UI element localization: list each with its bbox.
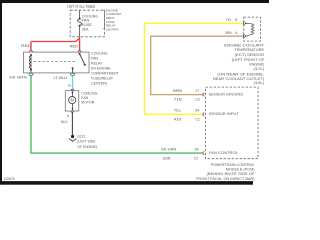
svg-text:FAN: FAN [91,56,98,60]
svg-text:(3.8L): (3.8L) [254,80,265,85]
connector arc: sensor pin B [243,22,245,25]
svg-text:(LEFT SIDE: (LEFT SIDE [77,140,96,144]
svg-text:110678: 110678 [4,177,15,181]
wire: fuse top lead [79,10,81,18]
wire RED: horizontal branch to coil [31,41,76,43]
svg-text:FRONT FACIA, ON IMPACT BAR): FRONT FACIA, ON IMPACT BAR) [196,176,255,181]
connector arc: PCM pin 27 [203,93,205,96]
svg-text:COOLING: COOLING [82,14,98,18]
svg-text:RED: RED [70,45,79,49]
connector arc: PCM pin 54 (sensor input) [203,113,205,116]
svg-text:MOTOR: MOTOR [81,101,94,105]
wire: coil to bottom edge [30,70,32,74]
svg-text:BLK: BLK [61,120,68,124]
svg-text:FAN CONTROL: FAN CONTROL [209,151,238,155]
motor M1: cooling fan motor box [65,91,79,111]
svg-text:YEL: YEL [174,109,182,113]
svg-text:COOLING: COOLING [81,92,97,96]
ECT thermistor element [245,23,247,25]
wire RED: junction diagonal [76,38,80,41]
connector oval: relay pin to DK GRN [29,73,33,75]
wire DK GRN: relay to PCM fan control [31,76,203,154]
svg-text:COOLING: COOLING [91,51,108,55]
bracket: engine compartment fuse/relay center [103,10,104,28]
svg-text:FUSE/RELAY: FUSE/RELAY [91,77,114,81]
svg-text:54: 54 [195,148,199,152]
svg-text:C2: C2 [195,98,200,102]
svg-text:(IN ENGINE: (IN ENGINE [91,67,111,71]
svg-text:COMPARTMENT: COMPARTMENT [91,72,120,76]
wire: switch output to bottom edge [72,68,74,73]
svg-text:RELAY: RELAY [91,62,103,66]
connector bump: relay switch pin 79.6 [78,51,81,53]
svg-text:LT BLU: LT BLU [54,76,68,80]
relay K1: cooling fan relay box [23,52,89,73]
svg-text:DK GRN: DK GRN [161,148,177,152]
svg-text:410: 410 [174,117,182,121]
wire YEL: sensor input to PCM [145,23,244,114]
svg-text:DK GRN: DK GRN [10,76,28,80]
wire BRN: sensor ground to PCM [151,36,244,94]
svg-text:HOT AT ALL TIMES: HOT AT ALL TIMES [67,4,95,9]
wire RED: fuse to relay switch (vertical) [79,37,81,51]
wire: fuse bottom lead [79,26,81,37]
svg-text:G112: G112 [77,135,85,139]
ground G112 [71,135,74,138]
connector oval: relay pin to LT BLU [71,73,75,75]
svg-text:FUSE: FUSE [82,23,93,27]
svg-text:CENTER): CENTER) [91,82,107,86]
wire RED: drop to relay coil [30,42,32,51]
connector arc: PCM pin 54 (fan control) [203,152,205,155]
fuse element [79,18,81,20]
PCM box (dashed) [206,87,258,159]
svg-text:YEL: YEL [226,18,232,22]
svg-text:30A: 30A [82,28,89,32]
motor symbol [69,97,76,104]
connector bump: motor pin B [71,89,74,90]
wire LT BLU: relay to fan motor [72,76,74,90]
svg-text:718: 718 [174,98,182,102]
relay switch [79,53,81,55]
svg-text:FAN: FAN [81,96,88,100]
fuse F1: cooling fan fuse box (dashed) [70,10,104,37]
relay coil [30,54,32,56]
svg-text:27: 27 [195,89,199,93]
svg-text:FAN: FAN [82,19,90,23]
svg-text:BRN: BRN [173,89,183,93]
motor internal leads [71,91,73,97]
svg-text:RED: RED [21,44,32,48]
svg-text:SENSOR GROUND: SENSOR GROUND [209,92,244,96]
svg-text:BRN: BRN [226,31,233,35]
svg-text:54: 54 [195,109,199,113]
svg-text:M: M [70,98,74,103]
svg-text:CENTER: CENTER [106,27,119,31]
relay mechanical link (dashed) [34,61,76,63]
svg-text:OF ENGINE): OF ENGINE) [77,145,97,149]
connector bump: relay coil pin 30.8 [30,51,33,53]
connector bump: motor pin A [71,111,74,112]
svg-text:SENSOR INPUT: SENSOR INPUT [209,112,240,116]
svg-text:(3.2L): (3.2L) [254,66,265,71]
wire BLK: motor to ground [71,112,73,135]
connector arc: sensor pin A [243,35,245,38]
svg-text:C1: C1 [195,117,200,121]
svg-text:B: B [235,18,237,22]
svg-text:C2: C2 [194,157,199,161]
ECT sensor box (dashed) [244,17,261,41]
svg-text:335: 335 [162,157,170,161]
